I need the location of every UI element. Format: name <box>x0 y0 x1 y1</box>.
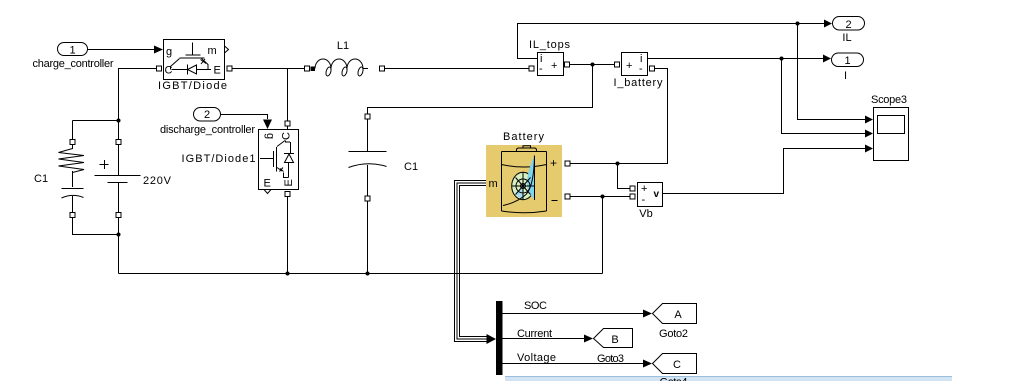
port squares <box>70 62 655 218</box>
svg-text:220V: 220V <box>143 175 172 187</box>
svg-text:+: + <box>551 60 557 72</box>
svg-text:Vb: Vb <box>639 208 652 220</box>
svg-text:1: 1 <box>69 45 75 57</box>
wire C1 mid bottom to rail <box>367 201 369 274</box>
wire branch down to capacitor C1 mid <box>368 65 593 115</box>
outport 2 IL <box>833 17 865 31</box>
wire E of U2 down to bottom rail <box>287 197 289 274</box>
wire i of I_battery to outport 1 <box>648 58 824 60</box>
svg-text:-: - <box>642 194 646 206</box>
wire battery - to Vb - <box>570 196 630 198</box>
wire Vb out to scope input 3 <box>663 149 866 194</box>
svg-text:Goto4: Goto4 <box>660 377 688 381</box>
outport 1 I <box>832 53 864 67</box>
svg-text:Battery: Battery <box>503 131 545 143</box>
m output chevron of U2 <box>264 190 271 194</box>
svg-text:C: C <box>673 359 681 371</box>
wire L1 to IL_tops <box>385 68 530 70</box>
svg-text:2: 2 <box>204 109 210 121</box>
wire branch down to IGBT/Diode1 C <box>287 69 289 122</box>
svg-text:g: g <box>166 46 172 58</box>
battery cylinder icon <box>502 146 547 213</box>
battery block <box>486 145 562 217</box>
resistor zigzag of C1 branch <box>59 149 85 173</box>
svg-text:IL: IL <box>842 32 851 44</box>
svg-text:E: E <box>214 65 221 77</box>
series RC branch C1 left <box>62 145 84 233</box>
battery globe logo <box>503 156 535 206</box>
current measurement I_battery <box>622 53 648 76</box>
wire inport2 to g of IGBT/Diode1 <box>221 115 268 120</box>
wire SOC to Goto2 <box>503 313 644 315</box>
battery m bus triple wire <box>455 181 488 342</box>
svg-text:-: - <box>639 63 643 75</box>
capacitor C1 mid <box>349 119 387 196</box>
svg-text:A: A <box>674 309 682 321</box>
svg-text:m: m <box>489 178 498 190</box>
wire to C1 branch top <box>73 120 119 122</box>
svg-text:g: g <box>264 133 276 139</box>
goto block A Goto2 <box>653 304 697 324</box>
svg-text:C1: C1 <box>404 161 418 173</box>
svg-text:L1: L1 <box>337 40 349 52</box>
svg-text:1: 1 <box>844 55 850 67</box>
svg-text:C1: C1 <box>34 173 48 185</box>
svg-text:C: C <box>281 132 293 140</box>
svg-text:E: E <box>264 178 271 190</box>
svg-text:+: + <box>626 60 632 72</box>
wire I_battery - down to battery + <box>570 69 668 164</box>
svg-text:2: 2 <box>845 19 851 31</box>
voltage measurement Vb <box>638 183 663 207</box>
wire IL_tops + to I_battery + <box>570 64 615 66</box>
svg-text:v: v <box>654 189 660 200</box>
svg-text:charge_controller: charge_controller <box>33 58 114 70</box>
capacitor curved plate of C1 branch <box>62 195 84 198</box>
wire E of U1 to L1 <box>232 68 305 70</box>
selection highlight band <box>505 377 952 381</box>
svg-text:I_battery: I_battery <box>614 77 664 89</box>
scope Scope3 <box>874 108 909 161</box>
wire Voltage to Goto4 <box>503 363 644 365</box>
wire branch to Vb + <box>618 164 631 189</box>
svg-text:IGBT/Diode: IGBT/Diode <box>158 80 227 92</box>
IGBT/Diode1 U2 (rotated) <box>259 130 299 190</box>
svg-text:m: m <box>208 45 217 57</box>
svg-text:SOC: SOC <box>524 300 547 312</box>
m output chevron of U1 <box>225 46 229 53</box>
svg-text:+: + <box>550 156 557 170</box>
svg-text:Goto3: Goto3 <box>597 353 624 365</box>
demux bus selector bar <box>496 301 503 375</box>
node C port wire of U1 <box>119 69 157 141</box>
bottom rail <box>119 273 603 275</box>
svg-text:E: E <box>283 179 295 186</box>
svg-text:IGBT/Diode1: IGBT/Diode1 <box>182 153 256 165</box>
node junction left top <box>117 119 121 123</box>
wire branch outport1 junction down to scope input 2 <box>782 59 866 134</box>
goto block B Goto3 <box>594 329 633 348</box>
wire Current to Goto3 <box>503 338 585 340</box>
inport 2 discharge_controller <box>194 108 221 122</box>
goto block C Goto4 <box>653 354 697 374</box>
DC source 220V <box>95 145 141 214</box>
inport 1 charge_controller <box>58 43 88 56</box>
svg-text:I: I <box>844 70 847 82</box>
current measurement IL_tops <box>538 53 564 76</box>
wire battery - branch down to bottom rail <box>602 197 604 274</box>
wire branch outport2 junction down to scope input 1 <box>798 24 866 120</box>
svg-text:discharge_controller: discharge_controller <box>160 124 255 136</box>
svg-text:B: B <box>611 334 618 346</box>
IGBT/Diode icon <box>171 43 212 75</box>
svg-text:Scope3: Scope3 <box>871 94 907 106</box>
wire inport1 to g <box>88 49 154 51</box>
wire C1 branch bottom <box>73 232 119 235</box>
IGBT/Diode U1 <box>164 40 225 80</box>
svg-text:-: - <box>539 63 543 75</box>
IGBT/Diode1 icon (rotated) <box>260 141 294 178</box>
svg-text:Goto2: Goto2 <box>659 328 688 340</box>
svg-text:Voltage: Voltage <box>517 352 556 364</box>
svg-text:Current: Current <box>517 328 552 340</box>
svg-text:IL_tops: IL_tops <box>529 39 571 51</box>
wire 220V bottom to bottom rail <box>118 218 120 274</box>
wire i of IL_tops up to outport 2 <box>518 24 825 59</box>
